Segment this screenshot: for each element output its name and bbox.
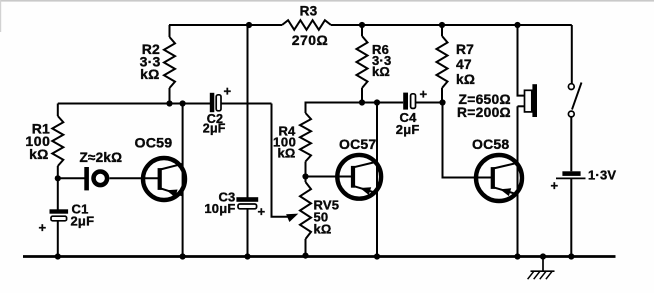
svg-text:10μF: 10μF — [204, 201, 235, 216]
svg-text:kΩ: kΩ — [372, 64, 390, 79]
svg-text:OC59: OC59 — [135, 136, 173, 152]
svg-text:OC57: OC57 — [339, 136, 376, 152]
svg-text:2μF: 2μF — [396, 122, 420, 137]
svg-text:+: + — [258, 204, 266, 219]
svg-text:kΩ: kΩ — [456, 72, 475, 87]
svg-text:2μF: 2μF — [203, 121, 226, 135]
svg-text:OC58: OC58 — [472, 136, 509, 152]
svg-text:270Ω: 270Ω — [292, 32, 329, 48]
svg-text:kΩ: kΩ — [277, 146, 295, 161]
svg-text:kΩ: kΩ — [140, 66, 159, 82]
svg-text:47: 47 — [456, 57, 472, 72]
svg-text:R3: R3 — [300, 3, 318, 18]
svg-text:R=200Ω: R=200Ω — [457, 105, 511, 120]
svg-text:+: + — [551, 178, 559, 193]
svg-text:+: + — [39, 220, 47, 235]
svg-text:kΩ: kΩ — [314, 222, 332, 237]
svg-text:R7: R7 — [456, 42, 474, 57]
svg-text:kΩ: kΩ — [29, 146, 48, 162]
svg-text:+: + — [420, 87, 428, 102]
svg-text:1·3V: 1·3V — [588, 168, 616, 183]
svg-text:+: + — [224, 83, 232, 98]
svg-text:2μF: 2μF — [71, 213, 95, 228]
svg-text:Z≈2kΩ: Z≈2kΩ — [80, 150, 123, 165]
